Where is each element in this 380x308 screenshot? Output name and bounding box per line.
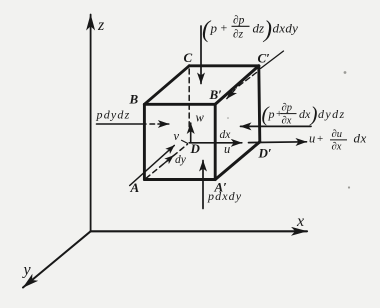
svg-text:dz: dz [253, 21, 265, 36]
svg-text:w: w [196, 111, 205, 125]
velocity arrow v, diagonal toward D [130, 145, 175, 185]
svg-text:u: u [224, 142, 230, 156]
y-axis [23, 231, 91, 287]
svg-text:dx: dx [299, 107, 311, 121]
cube edge B-B' (front-top) [144, 103, 215, 106]
pressure arrow bottom: p dxdy, points up onto bottom face [202, 161, 204, 209]
svg-text:): ) [310, 102, 318, 126]
formula right-lower: u + du/dx dx [309, 129, 367, 153]
svg-text:C: C [184, 50, 193, 65]
velocity arrow u (with dx label), from D to the right [189, 142, 242, 144]
svg-text:C′: C′ [258, 51, 271, 66]
formula top: (p + dp/dz dz) dxdy [202, 15, 298, 44]
svg-text:): ) [262, 17, 272, 43]
svg-text:p: p [210, 21, 218, 36]
svg-text:∂u: ∂u [332, 129, 342, 140]
svg-text:pdxdy: pdxdy [207, 189, 242, 203]
pressure arrow left: dashed part with head at left face centre [150, 123, 169, 125]
cube edge C'-B' (top-right) [215, 66, 259, 105]
cube hidden edge A-D (dashed) [146, 144, 188, 178]
pressure arrow back face: thin solid part above C' [261, 51, 284, 69]
cube edge A-B (front-left) [143, 104, 146, 179]
svg-text:v: v [174, 129, 180, 143]
svg-text:B′: B′ [209, 87, 223, 102]
svg-text:z: z [97, 17, 105, 34]
cube edge C-C' (top-back) [189, 64, 259, 67]
cube edge A-A' (front-bottom) [144, 178, 215, 181]
scan speck dots [227, 71, 350, 188]
velocity arrow u+du/dx dx, long arrow through D' [249, 141, 307, 144]
pressure arrow back face: dashed hidden part [236, 73, 257, 89]
svg-text:x: x [296, 213, 304, 230]
pressure arrow back face: arrowhead at back face centre near B' [227, 90, 235, 99]
svg-text:∂x: ∂x [332, 142, 342, 153]
pressure arrow top: (p+dp/dz dz)dxdy, points down onto top face [200, 26, 202, 84]
svg-text:dx: dx [220, 129, 232, 141]
svg-text:pdydz: pdydz [96, 107, 131, 121]
svg-text:dxdy: dxdy [273, 21, 299, 36]
svg-text:y: y [22, 262, 32, 279]
svg-text:∂z: ∂z [233, 28, 244, 40]
svg-text:dydz: dydz [318, 107, 346, 121]
svg-text:B: B [129, 92, 139, 107]
svg-text:+: + [317, 133, 323, 145]
svg-text:p: p [268, 107, 275, 121]
svg-text:D: D [190, 141, 201, 156]
svg-text:A: A [130, 180, 140, 195]
z-axis [90, 15, 92, 232]
svg-text:D′: D′ [258, 146, 272, 161]
cube edge B-C (top-left) [144, 66, 189, 105]
cube edge A'-B' (front-right) [214, 104, 217, 179]
svg-text:u: u [309, 132, 315, 146]
cube edge A'-D' (bottom-right) [215, 142, 260, 180]
pressure arrow left: p dydz, solid part [97, 123, 147, 125]
cube edge C'-D' (back-right) [259, 66, 260, 142]
svg-text:+: + [221, 21, 228, 35]
dy direction arrowhead on edge A-D [164, 156, 173, 164]
svg-text:dx: dx [354, 131, 367, 146]
svg-text:∂x: ∂x [282, 116, 292, 127]
cube hidden edge C-D (dashed) [188, 69, 190, 127]
svg-text:∂p: ∂p [282, 103, 292, 114]
svg-text:∂p: ∂p [233, 15, 245, 27]
velocity arrow w, from D upward [190, 123, 192, 143]
small tail stroke from v label to D [182, 140, 188, 143]
pressure arrow right: (p+dp/dx dx)dydz, points left onto right face [241, 125, 312, 127]
formula right: (p + dp/dx dx) dydz [262, 102, 346, 127]
svg-text:dy: dy [175, 154, 187, 166]
x-axis [91, 230, 307, 232]
